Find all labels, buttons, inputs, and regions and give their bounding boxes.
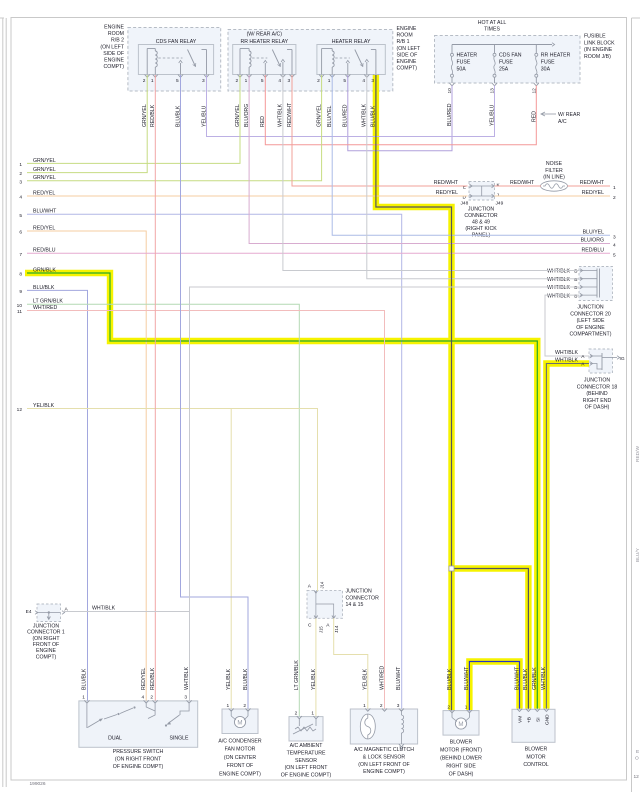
svg-text:YEL/BLK: YEL/BLK: [363, 668, 369, 690]
svg-text:4: 4: [613, 243, 616, 249]
svg-text:5: 5: [19, 213, 22, 219]
svg-text:B: B: [574, 277, 577, 283]
svg-text:1: 1: [151, 78, 154, 84]
svg-text:D: D: [463, 194, 467, 200]
svg-text:RIGHT END: RIGHT END: [583, 398, 612, 404]
wire WHT/BLK junction connector 1 branch: [63, 611, 190, 613]
ground symbol: [399, 744, 404, 747]
svg-text:(ON RIGHT FRONT: (ON RIGHT FRONT: [115, 757, 162, 763]
svg-text:GRN/YEL: GRN/YEL: [33, 158, 56, 164]
svg-text:BLU/RED: BLU/RED: [343, 104, 349, 127]
svg-text:(ON LEFT FRONT: (ON LEFT FRONT: [285, 765, 329, 771]
wire highlight BLU/BLK branch to blower motor control +B: [452, 569, 529, 709]
wire WHT/BLK RR relay pin4 to junction connector 20: [283, 75, 579, 271]
svg-text:TIMES: TIMES: [484, 27, 500, 33]
svg-text:COMPT): COMPT): [397, 66, 418, 72]
svg-text:B: B: [574, 293, 577, 299]
svg-text:MOTOR: MOTOR: [526, 754, 545, 760]
svg-text:BLU/WHT: BLU/WHT: [33, 209, 57, 215]
svg-text:2: 2: [380, 703, 383, 709]
svg-text:R/B 1: R/B 1: [397, 39, 410, 45]
svg-text:FUSIBLE: FUSIBLE: [584, 34, 606, 40]
svg-text:JUNCTION: JUNCTION: [33, 624, 59, 630]
svg-text:ENGINE: ENGINE: [104, 25, 124, 31]
svg-text:8: 8: [19, 272, 22, 278]
svg-text:E4: E4: [26, 609, 32, 615]
svg-text:5: 5: [176, 78, 179, 84]
svg-text:1: 1: [465, 704, 468, 710]
svg-text:A/C AMBIENT: A/C AMBIENT: [290, 743, 324, 749]
svg-text:CONNECTOR 18: CONNECTOR 18: [577, 384, 618, 390]
A/C ambient temperature sensor: [289, 717, 323, 741]
svg-text:HOT AT ALL: HOT AT ALL: [478, 20, 507, 26]
svg-text:O: O: [635, 756, 639, 762]
svg-text:3: 3: [19, 179, 22, 185]
svg-text:LT GRN/BLK: LT GRN/BLK: [33, 299, 63, 305]
svg-text:GRN/BLK: GRN/BLK: [532, 667, 538, 690]
svg-text:2: 2: [143, 78, 146, 84]
blower motor front: [443, 711, 479, 736]
svg-text:RED/WHT: RED/WHT: [287, 102, 293, 127]
svg-text:(ON CENTER: (ON CENTER: [224, 755, 257, 761]
svg-text:RED/YEL: RED/YEL: [436, 190, 458, 196]
svg-text:MOTOR (FRONT): MOTOR (FRONT): [440, 748, 482, 754]
svg-text:E: E: [636, 749, 639, 755]
svg-text:ENGINE COMPT): ENGINE COMPT): [363, 769, 405, 775]
svg-text:4: 4: [278, 78, 281, 84]
svg-text:ROOM: ROOM: [108, 31, 124, 37]
svg-text:YEL/BLK: YEL/BLK: [311, 668, 317, 690]
svg-text:(IN LINE): (IN LINE): [543, 175, 565, 181]
wire YEL/BLK branch to condenser fan pin1: [230, 409, 232, 709]
svg-text:WHT/BLK: WHT/BLK: [541, 666, 547, 690]
splice junction marker: [449, 566, 454, 571]
svg-text:RED: RED: [260, 116, 266, 127]
svg-text:WHT/RED: WHT/RED: [33, 305, 57, 311]
svg-text:J14: J14: [334, 625, 339, 633]
wire BLU/BLK CDS relay pin5 to condenser fan pin2: [181, 75, 249, 709]
svg-text:11: 11: [17, 309, 22, 315]
svg-text:WHT/BLK: WHT/BLK: [547, 277, 571, 283]
wire WHT/RED row11 to A/C magnetic clutch pin2: [27, 311, 385, 709]
svg-text:CONNECTOR: CONNECTOR: [464, 213, 498, 219]
svg-text:CONTROL: CONTROL: [523, 762, 548, 768]
junction connector 48 and 49: [469, 182, 495, 201]
pressure switch internal contacts: [86, 703, 88, 728]
svg-text:2: 2: [150, 695, 153, 701]
svg-text:1: 1: [311, 710, 314, 716]
wire BLU/BLK heater relay pin3 highlighted core: [376, 75, 452, 710]
svg-text:FRONT OF: FRONT OF: [227, 763, 253, 769]
wire BLU/BLK branch to control +B core: [452, 569, 529, 709]
svg-text:OF ENGINE COMPT): OF ENGINE COMPT): [281, 773, 332, 779]
svg-text:FUSE: FUSE: [457, 60, 471, 66]
svg-text:1: 1: [227, 703, 230, 709]
svg-text:JUNCTION: JUNCTION: [468, 206, 494, 212]
svg-text:25A: 25A: [499, 67, 509, 73]
svg-text:GRN/YEL: GRN/YEL: [142, 104, 148, 127]
svg-text:3: 3: [397, 703, 400, 709]
wire RED/YEL junction 49 to right edge: [495, 195, 611, 197]
svg-text:4: 4: [142, 695, 145, 701]
svg-text:ENGINE: ENGINE: [36, 648, 56, 654]
svg-text:(RIGHT KICK: (RIGHT KICK: [465, 226, 497, 232]
svg-text:WHT/BLK: WHT/BLK: [362, 103, 368, 127]
svg-text:CONNECTOR: CONNECTOR: [346, 595, 380, 601]
svg-text:ENGINE: ENGINE: [104, 58, 124, 64]
svg-text:GRN/YEL: GRN/YEL: [316, 104, 322, 127]
wire WHT/BLK pressure switch pin3 to junction connector 20: [190, 287, 580, 701]
wire GRN/YEL row2 to CDS relay pin2: [27, 75, 147, 173]
fuse HEATER 50A: [451, 45, 453, 54]
svg-text:1: 1: [363, 703, 366, 709]
svg-text:BLU/Y: BLU/Y: [635, 547, 640, 562]
svg-text:1: 1: [245, 78, 248, 84]
svg-text:+B: +B: [526, 717, 532, 723]
page border left sliver (previous page): [0, 17, 4, 19]
svg-text:RED/BLK: RED/BLK: [150, 104, 156, 127]
svg-text:DUAL: DUAL: [108, 736, 122, 742]
wire RED/WHT junction 48 to noise filter: [495, 185, 542, 187]
svg-text:BLU/ORG: BLU/ORG: [244, 104, 250, 127]
pressure switch: [79, 701, 198, 747]
svg-text:2: 2: [613, 195, 616, 201]
svg-text:(ON LEFT FRONT OF: (ON LEFT FRONT OF: [358, 762, 409, 768]
svg-text:J14: J14: [320, 581, 325, 588]
svg-text:BLU/WHT: BLU/WHT: [396, 666, 402, 690]
wire BLU/WHT blower motor pin1 to control VM core: [469, 662, 519, 711]
svg-text:BLOWER: BLOWER: [525, 747, 548, 753]
svg-text:GRN/YEL: GRN/YEL: [33, 167, 56, 173]
svg-text:30A: 30A: [541, 67, 551, 73]
blower motor control: [512, 709, 555, 742]
svg-text:9: 9: [19, 289, 22, 295]
wire LT GRN/BLK row10 to ambient temperature sensor pin2: [27, 304, 299, 716]
svg-text:IG: IG: [620, 356, 625, 362]
svg-text:BLU/BLK: BLU/BLK: [175, 105, 181, 127]
svg-text:10: 10: [17, 303, 23, 309]
svg-text:YEL/BLU: YEL/BLU: [201, 105, 207, 127]
wire RED/YEL row6 to pressure switch pin4: [27, 231, 146, 701]
bus wire hot feed: [452, 44, 552, 46]
svg-text:(BEHIND LOWER: (BEHIND LOWER: [440, 756, 482, 762]
svg-text:SENSOR: SENSOR: [295, 758, 317, 764]
svg-text:2: 2: [243, 703, 246, 709]
svg-text:JUNCTION: JUNCTION: [346, 589, 372, 595]
svg-text:ENGINE COMPT): ENGINE COMPT): [219, 771, 261, 777]
svg-text:RED/BLU: RED/BLU: [33, 248, 56, 254]
svg-text:12: 12: [17, 407, 23, 413]
wire YEL/BLU cds fan fuse to cds fan relay pin3: [207, 75, 495, 137]
lock sensor inductor: [400, 710, 402, 715]
svg-text:SIDE OF: SIDE OF: [103, 51, 124, 57]
svg-text:13: 13: [490, 88, 496, 94]
svg-text:B: B: [574, 285, 577, 291]
svg-text:JUNCTION: JUNCTION: [584, 378, 610, 384]
svg-text:FRONT OF: FRONT OF: [33, 642, 59, 648]
svg-text:OF DASH): OF DASH): [585, 405, 610, 411]
svg-text:COMPARTMENT): COMPARTMENT): [570, 332, 612, 338]
svg-text:HEATER: HEATER: [457, 53, 478, 59]
svg-text:WHT/BLK: WHT/BLK: [555, 350, 579, 356]
svg-text:5: 5: [261, 78, 264, 84]
wire RED/BLU row7 to right edge: [27, 252, 610, 254]
svg-text:YEL/BLK: YEL/BLK: [226, 668, 232, 690]
wire WHT/BLK junction connector 20 row4 to junction connector 18: [545, 295, 589, 356]
fuse RR HEATER 30A: [535, 45, 537, 54]
svg-text:LT GRN/BLK: LT GRN/BLK: [294, 660, 300, 690]
svg-text:OF DASH): OF DASH): [449, 772, 474, 778]
wire YEL/BLK row12 to junction connector 14: [27, 409, 318, 592]
svg-text:NOISE: NOISE: [546, 161, 563, 167]
wire RED/WHT noise filter to right edge: [568, 185, 611, 187]
wire WHT/BLK heater relay pin4 to junction connector 20: [367, 75, 579, 279]
svg-text:5: 5: [613, 253, 616, 259]
wire highlight BLU/WHT blower motor to control VM: [469, 662, 519, 711]
svg-text:CONNECTOR 1: CONNECTOR 1: [27, 630, 65, 636]
svg-text:R/B 2: R/B 2: [111, 38, 124, 44]
svg-text:TEMPERATURE: TEMPERATURE: [287, 750, 326, 756]
svg-text:C: C: [308, 623, 312, 629]
svg-text:(BEHIND: (BEHIND: [586, 391, 608, 397]
svg-text:BLU/YEL: BLU/YEL: [583, 229, 604, 235]
wire BLU/RED heater fuse to heater relay pin5: [348, 75, 452, 151]
svg-text:(IN ENGINE: (IN ENGINE: [584, 47, 613, 53]
wire YEL/BLK junction 15 to ambient sensor pin1: [315, 618, 317, 716]
svg-text:(ON RIGHT: (ON RIGHT: [32, 636, 60, 642]
svg-text:SI: SI: [535, 717, 541, 722]
svg-text:7: 7: [19, 252, 22, 258]
svg-text:ENGINE: ENGINE: [397, 26, 417, 32]
svg-text:BLU/BLK: BLU/BLK: [82, 668, 88, 690]
wire RED rr heater fuse to rr heater relay pin5: [265, 75, 536, 145]
junction connector 18: [589, 349, 613, 373]
svg-text:199026: 199026: [30, 781, 46, 787]
wire YEL/BLK junction 14 to A/C magnetic clutch pin1: [334, 618, 368, 708]
wire BLU/BLK row9 to pressure switch pin1: [27, 290, 88, 700]
svg-text:& LOCK SENSOR: & LOCK SENSOR: [363, 754, 406, 760]
svg-text:BLU/BLK: BLU/BLK: [447, 668, 453, 690]
svg-text:FAN MOTOR: FAN MOTOR: [225, 747, 256, 753]
svg-text:WHT/BLK: WHT/BLK: [547, 285, 571, 291]
svg-text:RED/WHT: RED/WHT: [434, 180, 459, 186]
svg-text:(ON LEFT: (ON LEFT: [397, 46, 421, 52]
wire highlight GRN/BLK to blower motor control SI: [25, 273, 537, 709]
wire BLU/ORG RR relay pin1 to right edge: [249, 75, 610, 244]
svg-text:BLU/BLK: BLU/BLK: [371, 105, 377, 127]
svg-text:A/C: A/C: [558, 119, 567, 125]
A/C condenser fan motor: [222, 709, 258, 734]
svg-text:ENGINE: ENGINE: [397, 59, 417, 65]
A/C magnetic clutch and lock sensor: [350, 709, 417, 744]
svg-text:3: 3: [371, 78, 374, 84]
svg-text:COMPT): COMPT): [36, 654, 57, 660]
svg-text:OF ENGINE COMPT): OF ENGINE COMPT): [113, 764, 164, 770]
wire highlight WHT/BLK junction connector 18 to control GND: [546, 364, 589, 709]
svg-text:JUNCTION: JUNCTION: [577, 305, 603, 311]
svg-text:J15: J15: [319, 626, 324, 633]
svg-text:WHT/BLK: WHT/BLK: [184, 666, 190, 690]
wire GRN/YEL row3 to heater relay pin2: [27, 75, 322, 181]
svg-text:WHT/BLK: WHT/BLK: [547, 269, 571, 275]
svg-text:GRN/BLK: GRN/BLK: [33, 267, 56, 273]
clutch coil symbol: [360, 714, 375, 739]
svg-text:OF ENGINE: OF ENGINE: [576, 325, 605, 331]
svg-text:M: M: [458, 721, 463, 728]
svg-text:3: 3: [202, 78, 205, 84]
svg-text:BLU/WHT: BLU/WHT: [464, 666, 470, 690]
svg-text:A/C CONDENSER: A/C CONDENSER: [218, 739, 261, 745]
svg-text:12: 12: [531, 88, 537, 94]
svg-text:RED/YEL: RED/YEL: [33, 225, 55, 231]
svg-text:RED/WHT: RED/WHT: [510, 180, 535, 186]
svg-text:J49: J49: [496, 201, 504, 207]
svg-text:W/ REAR: W/ REAR: [558, 112, 580, 118]
wire RED/WHT RR relay pin3 to junction connector 48 pin E: [292, 75, 468, 186]
svg-text:BLU/BLK: BLU/BLK: [523, 668, 529, 690]
svg-text:3: 3: [288, 78, 291, 84]
wire BLU/YEL heater relay pin1 to right edge: [332, 75, 610, 235]
svg-text:YEL/BLK: YEL/BLK: [33, 403, 55, 409]
svg-text:RED/BLU: RED/BLU: [582, 247, 605, 253]
svg-text:WHT/RED: WHT/RED: [379, 666, 385, 690]
svg-text:BLOWER: BLOWER: [450, 740, 473, 746]
svg-text:PRESSURE SWITCH: PRESSURE SWITCH: [113, 749, 164, 755]
svg-text:SINGLE: SINGLE: [169, 736, 189, 742]
svg-text:WHT/BLK: WHT/BLK: [555, 358, 579, 364]
svg-text:FUSE: FUSE: [499, 60, 513, 66]
relay block engine room R/B 1 dashed box: [228, 30, 393, 92]
svg-text:6: 6: [19, 230, 22, 236]
wire WHT/BLK junction connector 18 to control GND core: [546, 364, 589, 709]
svg-text:ROOM J/B): ROOM J/B): [584, 54, 611, 60]
svg-text:RED/BLK: RED/BLK: [150, 667, 156, 690]
wire BLU/WHT row5 to A/C magnetic clutch pin3: [27, 214, 402, 708]
svg-text:2: 2: [447, 704, 450, 710]
svg-text:LINK BLOCK: LINK BLOCK: [584, 40, 615, 46]
svg-text:RED: RED: [531, 111, 537, 122]
svg-text:ROOM: ROOM: [397, 33, 413, 39]
svg-text:BLU/ORG: BLU/ORG: [581, 238, 604, 244]
svg-text:BLU/BLK: BLU/BLK: [33, 285, 55, 291]
svg-text:1: 1: [82, 695, 85, 701]
svg-text:RED/WHT: RED/WHT: [580, 180, 605, 186]
svg-text:COMPT): COMPT): [104, 64, 125, 70]
svg-text:10: 10: [447, 88, 453, 94]
svg-text:2: 2: [295, 710, 298, 716]
wire RED/YEL row4 to junction connector 48 pin D: [27, 195, 468, 197]
svg-text:48 & 49: 48 & 49: [472, 220, 490, 226]
svg-text:BLU/BLK: BLU/BLK: [243, 668, 249, 690]
svg-text:RED/YEL: RED/YEL: [33, 190, 55, 196]
annotation W/ REAR A/C arrow: [542, 113, 557, 115]
svg-text:4: 4: [19, 195, 22, 201]
wire highlight BLU/BLK heater relay pin3 to blower motor: [376, 75, 452, 710]
svg-text:3: 3: [613, 235, 616, 241]
svg-text:1: 1: [19, 162, 22, 168]
svg-text:WHT/BLK: WHT/BLK: [547, 293, 571, 299]
svg-text:FUSE: FUSE: [541, 60, 555, 66]
svg-text:4: 4: [362, 78, 365, 84]
svg-text:1: 1: [328, 78, 331, 84]
svg-text:(W/ REAR A/C): (W/ REAR A/C): [247, 32, 283, 38]
svg-text:GND: GND: [544, 714, 550, 725]
wire GRN/BLK row8 (highlighted core): [27, 273, 537, 709]
svg-text:RIGHT SIDE: RIGHT SIDE: [446, 764, 476, 770]
svg-text:GRN/YEL: GRN/YEL: [235, 104, 241, 127]
svg-text:14 & 15: 14 & 15: [346, 602, 364, 608]
svg-text:(ON LEFT: (ON LEFT: [100, 44, 124, 50]
svg-text:RED/YEL: RED/YEL: [582, 190, 604, 196]
svg-text:2: 2: [317, 78, 320, 84]
svg-text:BLU/WHT: BLU/WHT: [514, 666, 520, 690]
svg-text:WHT/BLK: WHT/BLK: [92, 605, 116, 611]
svg-text:CDS FAN: CDS FAN: [499, 53, 522, 59]
fuse CDS FAN 25A: [494, 45, 496, 54]
svg-text:YEL/BLU: YEL/BLU: [490, 104, 496, 126]
svg-text:3: 3: [184, 695, 187, 701]
svg-text:BLU/RED: BLU/RED: [447, 103, 453, 126]
svg-text:SIDE OF: SIDE OF: [397, 52, 418, 58]
svg-text:RED/W: RED/W: [635, 446, 640, 462]
pressure switch single contact: [180, 703, 189, 715]
svg-text:BLU/YEL: BLU/YEL: [327, 106, 333, 127]
svg-text:(LEFT SIDE: (LEFT SIDE: [577, 318, 605, 324]
svg-text:WHT/BLK: WHT/BLK: [278, 103, 284, 127]
junction connector 14 and 15: [307, 590, 343, 618]
svg-text:2: 2: [236, 78, 239, 84]
svg-text:RED/YEL: RED/YEL: [141, 668, 147, 690]
adjacent page border right sliver: [631, 18, 633, 792]
svg-text:FILTER: FILTER: [545, 168, 563, 174]
svg-text:12: 12: [634, 774, 640, 780]
svg-text:E: E: [463, 184, 466, 190]
svg-text:5: 5: [343, 78, 346, 84]
svg-text:M: M: [237, 719, 242, 726]
svg-text:A/C MAGNETIC CLUTCH: A/C MAGNETIC CLUTCH: [354, 747, 414, 753]
svg-text:1: 1: [613, 185, 616, 191]
relay block engine room R/B 2 dashed box: [128, 28, 221, 92]
wire GRN/YEL row1 to RR relay pin2: [27, 75, 240, 163]
svg-text:CONNECTOR 20: CONNECTOR 20: [570, 311, 611, 317]
svg-text:VM: VM: [518, 716, 524, 723]
svg-text:B: B: [574, 269, 577, 275]
junction connector 20: [579, 267, 613, 301]
wire RED/BLK CDS relay pin1 to pressure switch pin2: [154, 75, 156, 701]
svg-text:50A: 50A: [457, 67, 467, 73]
svg-text:2: 2: [19, 171, 22, 177]
svg-text:RR HEATER: RR HEATER: [541, 53, 571, 59]
svg-text:GRN/YEL: GRN/YEL: [33, 175, 56, 181]
thermistor symbol: [298, 718, 300, 726]
